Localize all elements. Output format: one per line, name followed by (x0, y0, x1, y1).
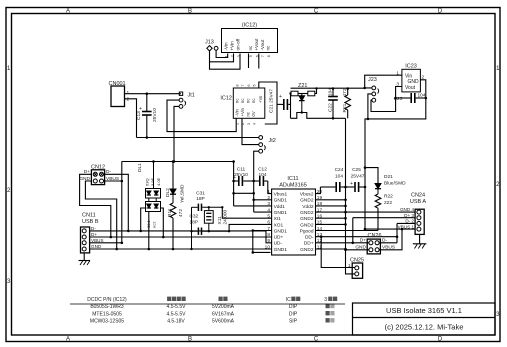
svg-text:CN24: CN24 (411, 193, 425, 199)
svg-text:MTE1S-0505: MTE1S-0505 (92, 311, 122, 317)
svg-text:4.5-5.5V: 4.5-5.5V (167, 304, 187, 310)
junction (228, 230, 230, 232)
svg-text:J13: J13 (205, 40, 214, 46)
svg-text:on-off: on-off (236, 38, 241, 50)
svg-text:6V167mA: 6V167mA (212, 311, 235, 317)
wire GND bus (90, 248, 272, 250)
svg-text:USB Isolate 3165 V1.1: USB Isolate 3165 V1.1 (386, 306, 462, 315)
wire Jt1 pin3 down to VBUS1 rail (174, 106, 179, 161)
svg-text:Jt2: Jt2 (269, 138, 276, 144)
table cell nashi row1 (326, 304, 330, 308)
wire GND1 long line (234, 192, 254, 194)
svg-text:-Vout: -Vout (260, 39, 265, 50)
ground symbol at CN24 (413, 234, 427, 248)
svg-text:C11: C11 (237, 167, 246, 173)
wire IC12 pin2 down to Jt2 pin2 (242, 82, 277, 145)
svg-text:GND2: GND2 (300, 198, 314, 204)
wire GND1 p7 (253, 231, 272, 253)
svg-text:C12: C12 (258, 167, 267, 173)
junction (110, 236, 113, 239)
wire J23 pin1 feed and IC23 Vin line (365, 75, 402, 119)
svg-text:1: 1 (348, 263, 351, 269)
svg-text:XO1: XO1 (274, 222, 284, 228)
junction (232, 180, 235, 183)
svg-text:472: 472 (342, 88, 348, 96)
wire GND1 p2 (254, 199, 272, 201)
svg-text:25V10: 25V10 (234, 172, 248, 178)
svg-text:Vbus2: Vbus2 (300, 192, 314, 198)
svg-text:+Vout: +Vout (254, 38, 259, 51)
svg-text:GND2: GND2 (300, 216, 314, 222)
wire CN01 pin2 down to GND1 line (125, 99, 137, 138)
svg-text:222: 222 (384, 200, 392, 206)
svg-text:Vbus1: Vbus1 (274, 192, 288, 198)
svg-text:4.5-18V: 4.5-18V (167, 319, 185, 325)
svg-text:Blue/SMD: Blue/SMD (384, 181, 406, 187)
svg-text:B0505S-1WR3: B0505S-1WR3 (90, 304, 124, 310)
svg-text:7: 7 (261, 55, 265, 57)
svg-text:R21: R21 (342, 103, 348, 112)
svg-text:3: 3 (324, 297, 327, 303)
svg-text:GND1: GND1 (274, 210, 288, 216)
zener diode of Z21 (299, 94, 305, 113)
svg-text:(IC12): (IC12) (242, 23, 257, 29)
junction (344, 211, 347, 214)
wire CN26 D- to DD- net (379, 229, 402, 250)
svg-text:1: 1 (396, 70, 399, 76)
VBUS2 rail (364, 168, 366, 230)
svg-text:UD+: UD+ (274, 235, 284, 241)
svg-text:GND2: GND2 (300, 210, 314, 216)
capacitor C23 104 (396, 93, 426, 103)
wire DL1 to D-/D+ lines (141, 208, 164, 237)
junction (121, 180, 124, 183)
junction (190, 248, 192, 250)
svg-text:DCDC P/N (IC12): DCDC P/N (IC12) (87, 297, 127, 303)
svg-text:IC23: IC23 (405, 64, 417, 70)
crystal cluster wires (192, 207, 209, 249)
capacitor C13 25V10 (142, 94, 152, 138)
wire XI1 p5 (222, 207, 271, 218)
svg-text:IC: IC (286, 297, 291, 303)
svg-text:D+ 3: D+ 3 (404, 213, 414, 218)
junction (344, 205, 347, 208)
svg-text:5: 5 (252, 85, 256, 87)
junction (344, 199, 347, 202)
svg-text:5V600mA: 5V600mA (212, 319, 235, 325)
svg-text:1: 1 (236, 123, 240, 125)
svg-text:1: 1 (267, 189, 270, 195)
wire CN25 pin1 from DD- drop (321, 237, 355, 274)
wire CN12 D- drop (105, 174, 129, 231)
svg-text:CN26: CN26 (367, 233, 381, 239)
wire XO1 p6 (229, 224, 272, 231)
svg-text:+: + (139, 106, 142, 112)
junction (121, 242, 124, 245)
svg-text:nc: nc (246, 99, 251, 103)
wire Z21 out to J23 (291, 87, 365, 89)
table header input-range kanji (167, 297, 171, 301)
svg-text:C21 25V47: C21 25V47 (269, 89, 275, 113)
svg-text:MCW03-12S05: MCW03-12S05 (90, 319, 124, 325)
svg-text:5: 5 (249, 55, 253, 57)
svg-text:+Vin: +Vin (240, 107, 245, 116)
wire CN12 GND staircase to GND bus (85, 181, 116, 249)
junction (252, 199, 255, 202)
svg-text:3: 3 (247, 123, 251, 125)
junction (252, 192, 255, 195)
IC12 alternate footprint (IC12) SIP box (222, 29, 278, 53)
svg-text:104: 104 (327, 88, 333, 96)
svg-text:7: 7 (241, 85, 245, 87)
table cell nashi row3 (326, 318, 330, 322)
svg-text:UD-: UD- (274, 241, 283, 247)
wire VBUS1 rail (122, 162, 272, 206)
svg-text:Vdd1: Vdd1 (274, 204, 286, 210)
wire IC12 +Vo loop (259, 82, 277, 124)
svg-text:C24: C24 (335, 167, 344, 173)
junction (252, 180, 255, 183)
svg-text:Vdd2: Vdd2 (302, 204, 314, 210)
svg-text:C: C (314, 337, 319, 343)
table header 3-terminal kanji (328, 297, 332, 301)
svg-text:4.5-5.5V: 4.5-5.5V (167, 311, 187, 317)
svg-text:18P: 18P (196, 196, 205, 202)
wire CN01 pin1 to Jt1 pin1 (125, 94, 181, 138)
svg-text:C22: C22 (328, 103, 334, 112)
svg-text:VBUS 1: VBUS 1 (398, 225, 415, 230)
svg-text:C13: C13 (136, 111, 142, 120)
svg-text:GND1: GND1 (274, 228, 288, 234)
svg-text:25V10: 25V10 (152, 108, 158, 122)
capacitor C22 104 (328, 89, 338, 119)
svg-text:USB A: USB A (410, 199, 427, 205)
svg-text:X11: X11 (217, 216, 223, 225)
svg-text:IC12: IC12 (220, 96, 232, 102)
svg-text:-Vin: -Vin (223, 42, 228, 51)
svg-text:25V47: 25V47 (351, 174, 365, 180)
svg-text:nc2: nc2 (152, 221, 157, 228)
wire D- bus with jog to UD- (90, 231, 272, 249)
DCDC selection table (87, 297, 327, 325)
svg-text:GND1: GND1 (274, 198, 288, 204)
svg-text:+Vo: +Vo (258, 95, 263, 103)
wire Jt1 pin2 to IC12 pin1 (167, 100, 236, 161)
wire J23 pin2 down to VBUS2 (368, 94, 372, 119)
svg-text:DIP: DIP (289, 304, 298, 310)
wire GND1 top line to Jt2 pin1 (137, 138, 259, 213)
svg-text:DIP: DIP (289, 311, 298, 317)
wire VBUS bus (90, 242, 122, 244)
svg-text:XI1: XI1 (274, 216, 282, 222)
svg-text:Jt1: Jt1 (188, 93, 195, 99)
wire J23 pin3 to IC23 GND (371, 87, 402, 112)
capacitor C12 104 (254, 176, 268, 186)
svg-text:8: 8 (236, 85, 240, 87)
svg-text:A: A (66, 337, 70, 343)
svg-text:C: C (314, 9, 319, 15)
wire J13 to (IC12) pins (210, 50, 259, 69)
svg-text:104: 104 (258, 172, 266, 178)
svg-text:DD+: DD+ (304, 241, 314, 247)
ground symbol at CN11 (79, 253, 91, 265)
svg-text:nc: nc (234, 99, 239, 103)
svg-text:4.0E: 4.0E (156, 177, 161, 186)
junction (232, 160, 235, 163)
junction (364, 228, 367, 231)
svg-text:D+: D+ (360, 238, 366, 244)
junction (232, 192, 235, 195)
wire IC23 Vout down to VBUS2 rail (365, 80, 426, 168)
svg-text:C25: C25 (352, 167, 361, 173)
svg-text:GND2: GND2 (300, 247, 314, 253)
svg-text:472: 472 (178, 209, 184, 217)
crystal X11 24.000 (204, 211, 213, 224)
wire CN12 D+ staircase to D+ bus (80, 162, 129, 250)
wire CN25 pin2 from GND2 rail (346, 250, 355, 274)
resistor R21 472 (345, 89, 351, 119)
junction (344, 217, 347, 220)
capacitor C11 25V10 (234, 176, 254, 186)
svg-text:GND 4: GND 4 (400, 207, 414, 212)
wire Vdd1 to C11 (222, 193, 271, 252)
junction (252, 229, 255, 232)
svg-text:C32: C32 (189, 214, 198, 220)
wire GND1 p4 (254, 211, 272, 213)
svg-text:Yel,SMD: Yel,SMD (180, 184, 186, 203)
svg-text:J23: J23 (368, 77, 377, 83)
svg-text:3.9E: 3.9E (150, 177, 155, 186)
svg-text:8: 8 (267, 55, 271, 57)
wire D+ bus to UD+ (90, 236, 272, 238)
svg-text:DD-: DD- (305, 235, 314, 241)
svg-text:IC11: IC11 (287, 176, 298, 182)
title block (353, 303, 496, 335)
svg-text:ADuM3165: ADuM3165 (279, 183, 307, 189)
GND2 rail (345, 118, 347, 250)
junction (115, 248, 118, 251)
svg-text:DL1: DL1 (137, 163, 143, 172)
svg-text:+: + (279, 94, 282, 100)
svg-text:4: 4 (252, 123, 256, 125)
svg-text:63Q: 63Q (145, 178, 150, 186)
wire Jt2 pin3 down to C11/C12 rail (254, 151, 259, 212)
junction (344, 248, 347, 251)
junction (252, 251, 255, 254)
svg-text:3: 3 (396, 82, 399, 88)
wire CN26 VBUS (379, 229, 402, 250)
svg-text:CN11: CN11 (82, 213, 96, 219)
svg-text:+Vin: +Vin (229, 41, 234, 51)
svg-text:D: D (438, 9, 443, 15)
wires IC11 right pins (316, 187, 416, 250)
svg-text:5V200mA: 5V200mA (212, 304, 235, 310)
table header output kanji (219, 297, 223, 301)
svg-text:D- 2: D- 2 (405, 219, 414, 224)
table cell ari row2 (326, 311, 330, 315)
junction (344, 223, 347, 226)
svg-text:R22: R22 (384, 194, 393, 200)
svg-text:SIP: SIP (289, 319, 298, 325)
svg-text:6: 6 (247, 85, 251, 87)
svg-text:GND1: GND1 (274, 247, 288, 253)
svg-text:nc: nc (246, 112, 251, 116)
junction (208, 206, 210, 208)
svg-text:nc: nc (266, 45, 271, 51)
svg-text:nc: nc (251, 99, 256, 103)
svg-text:nc: nc (240, 99, 245, 103)
junction (208, 230, 210, 232)
svg-text:18P: 18P (190, 219, 199, 225)
junction (190, 230, 192, 232)
junction (221, 206, 223, 208)
Z21 lower bump wire (291, 113, 346, 119)
svg-text:2: 2 (127, 97, 130, 103)
svg-text:GND: GND (355, 245, 366, 251)
wire CN12 VBUS to rail (105, 180, 122, 182)
svg-text:GND2: GND2 (300, 222, 314, 228)
svg-text:USB B: USB B (82, 219, 99, 225)
junction (127, 230, 130, 233)
svg-text:nc: nc (248, 45, 253, 51)
svg-text:D21: D21 (384, 174, 393, 180)
svg-text:C31: C31 (196, 190, 205, 196)
svg-text:B: B (188, 9, 192, 15)
svg-text:Pgood: Pgood (300, 228, 314, 234)
svg-text:24.000: 24.000 (223, 209, 229, 224)
junction (396, 235, 399, 238)
table header package kanji (291, 297, 295, 301)
svg-text:D: D (438, 337, 443, 343)
svg-text:0V: 0V (251, 111, 256, 116)
wire DL1 center to GND bus (148, 212, 150, 250)
svg-text:(c) 2025.12.12. Mi-Take: (c) 2025.12.12. Mi-Take (385, 323, 464, 332)
svg-text:-Vin: -Vin (234, 108, 239, 116)
svg-text:+: + (350, 181, 353, 187)
svg-text:1: 1 (127, 90, 130, 96)
svg-text:104: 104 (335, 174, 343, 180)
svg-text:Vout: Vout (405, 85, 416, 91)
DL1 diodes (147, 191, 159, 208)
svg-text:A: A (66, 9, 70, 15)
capacitor C21 25V47 (277, 94, 291, 119)
svg-text:B: B (188, 337, 192, 343)
junction (352, 242, 355, 245)
